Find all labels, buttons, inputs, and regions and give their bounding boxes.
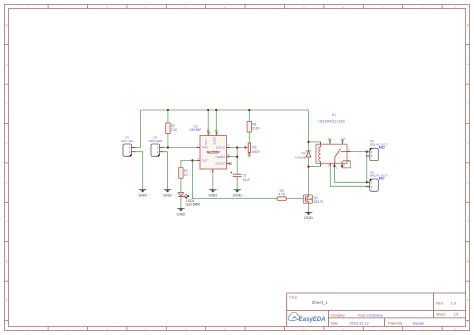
wire node B to coil bottom	[309, 166, 321, 168]
LED LED1 LED-5MM	[178, 193, 200, 207]
ground under LED1	[176, 208, 185, 216]
svg-text:Date:: Date:	[331, 321, 339, 325]
connector P3 RELAY OUT (NO)	[366, 139, 387, 160]
wire C1 to ground	[236, 177, 238, 190]
svg-text:TRIGGER: TRIGGER	[148, 139, 163, 143]
wire VCC top rail	[141, 109, 309, 111]
ground under C1	[233, 189, 242, 197]
junction node A	[307, 141, 309, 143]
svg-text:GND: GND	[138, 193, 147, 198]
junction rail-pin4	[215, 109, 217, 111]
wire P1 pin1 to VCC rail	[136, 110, 141, 148]
svg-text:510K: 510K	[252, 127, 260, 131]
junction OUT branch	[191, 159, 193, 161]
svg-text:GND: GND	[163, 193, 172, 198]
capacitor C1 10uF	[230, 171, 250, 182]
wire OUT branch down to R4	[192, 160, 277, 198]
junction THRES	[236, 156, 238, 158]
svg-text:HF115F/012-1ZS3: HF115F/012-1ZS3	[319, 119, 345, 123]
wire R5 top drop	[248, 110, 250, 122]
resistor R4 4.7K	[277, 189, 286, 200]
svg-text:500R: 500R	[252, 150, 260, 154]
svg-text:Sheet:: Sheet:	[436, 312, 445, 316]
wire DISCH to R6 wiper	[227, 147, 245, 149]
ground under Q1	[304, 212, 313, 220]
junction P3 pin1	[366, 150, 368, 152]
relay K1 HF115F/012-1ZS3	[316, 113, 350, 169]
op-amp U1 NE555P timer IC	[190, 124, 232, 173]
svg-text:Company:: Company:	[331, 313, 346, 317]
wire R2 top stub	[167, 110, 169, 123]
junction P4 pin1	[366, 181, 368, 183]
junction relay pin COM	[333, 165, 335, 167]
svg-text:CVOLT: CVOLT	[215, 162, 225, 166]
wire relay bottom pin to P4 pin1	[335, 166, 370, 182]
wire R5 to R6 wiper top	[248, 132, 250, 143]
wire THRES stub	[227, 156, 238, 158]
svg-text:Your Company: Your Company	[358, 314, 383, 318]
svg-text:GND: GND	[233, 193, 242, 198]
wire VCC rail to relay coil / node A	[308, 110, 310, 142]
wire Q1 source to ground	[308, 203, 310, 212]
svg-text:GND: GND	[304, 215, 313, 220]
junction node B	[307, 165, 309, 167]
potentiometer R6 500R	[245, 143, 261, 157]
wire node A to coil top	[309, 141, 321, 143]
diode D2 1N4148	[295, 151, 311, 159]
svg-text:NE555P: NE555P	[207, 151, 221, 155]
svg-text:K1: K1	[332, 113, 336, 117]
wire U1 pin4 RESET drop	[215, 110, 217, 136]
svg-text:Drawn By:: Drawn By:	[388, 321, 403, 325]
svg-text:EasyEDA: EasyEDA	[299, 317, 326, 323]
ground U1 pin1	[208, 189, 217, 197]
wire OUT to R1	[181, 160, 197, 167]
svg-text:REV:: REV:	[436, 302, 443, 306]
wire relay NC contact jog	[342, 161, 350, 168]
wire P3 pin2 stub	[366, 155, 367, 157]
junction TRIG-R2	[167, 146, 169, 148]
svg-text:LED-5MM: LED-5MM	[186, 203, 201, 207]
connector P4 RELAY OUT (NC)	[366, 170, 387, 191]
connector P1 VCC 12V	[121, 136, 135, 157]
svg-text:OUT: OUT	[202, 159, 208, 163]
wire node B to Q1 drain	[308, 167, 310, 195]
svg-text:BS170: BS170	[314, 200, 324, 204]
wire R4 to Q1 gate	[286, 198, 303, 200]
svg-text:NC: NC	[379, 176, 385, 181]
junction rail-R5	[248, 109, 250, 111]
wire DISCH-THRES junction to C1	[236, 148, 238, 174]
svg-text:4.7K: 4.7K	[278, 193, 285, 197]
svg-text:D2: D2	[302, 151, 306, 155]
svg-text:R6: R6	[252, 146, 256, 150]
svg-text:GND: GND	[176, 211, 185, 216]
wire relay NO contact to P3 pin1	[347, 151, 366, 153]
wire P1 pin2 to ground	[136, 152, 143, 190]
junction rail-pin8	[207, 109, 209, 111]
svg-text:1.0: 1.0	[451, 302, 456, 306]
wire R1 to LED1	[180, 178, 182, 192]
net label NC	[379, 176, 385, 181]
svg-text:2019-12-12: 2019-12-12	[350, 322, 369, 326]
svg-text:NO: NO	[379, 144, 385, 149]
svg-text:THRES: THRES	[215, 155, 225, 159]
wire U1 pin1 to ground	[212, 169, 214, 189]
wire LED1 cathode to ground	[180, 197, 182, 209]
ground under P2	[163, 189, 172, 197]
svg-text:VCC: VCC	[205, 139, 208, 144]
wire COM vertical P3 pin1 to P4 pin1	[366, 152, 368, 183]
svg-text:C1: C1	[243, 174, 247, 178]
svg-text:TRIG: TRIG	[202, 146, 210, 150]
svg-text:RESET: RESET	[213, 136, 216, 145]
junction relay pin NC	[341, 165, 343, 167]
connector P2 TRIGGER	[148, 136, 163, 157]
svg-text:2.2K: 2.2K	[171, 128, 178, 132]
svg-text:VCC 12V: VCC 12V	[121, 139, 134, 143]
svg-text:1N4148: 1N4148	[295, 155, 306, 159]
svg-text:TITLE:: TITLE:	[289, 296, 298, 300]
net label NO	[379, 144, 385, 149]
svg-text:Sheet_1: Sheet_1	[312, 300, 329, 305]
transistor Q1 BS170	[303, 195, 323, 204]
svg-text:GND: GND	[208, 193, 217, 198]
wire U1 pin8 VCC drop	[207, 110, 209, 136]
svg-text:kapapi: kapapi	[413, 322, 424, 326]
wire P2 pin2 to ground	[164, 152, 168, 190]
resistor R2 2.2K	[166, 123, 179, 134]
junction rail-R2	[167, 109, 169, 111]
ground under P1	[138, 189, 147, 197]
wire P2 pin1 to TRIG	[164, 147, 201, 149]
junction DISCH	[236, 146, 238, 148]
resistor R1 1K	[179, 168, 189, 179]
wire relay bottom pin to P4 pin2	[330, 163, 370, 186]
svg-text:DISCH: DISCH	[216, 146, 225, 150]
svg-text:NE555P: NE555P	[190, 128, 202, 132]
resistor R5 510K	[247, 122, 260, 133]
svg-text:1/1: 1/1	[454, 313, 459, 317]
wire D2 net segments	[308, 142, 310, 167]
wire R2 bottom stub	[167, 134, 169, 148]
svg-text:10uF: 10uF	[243, 178, 250, 182]
